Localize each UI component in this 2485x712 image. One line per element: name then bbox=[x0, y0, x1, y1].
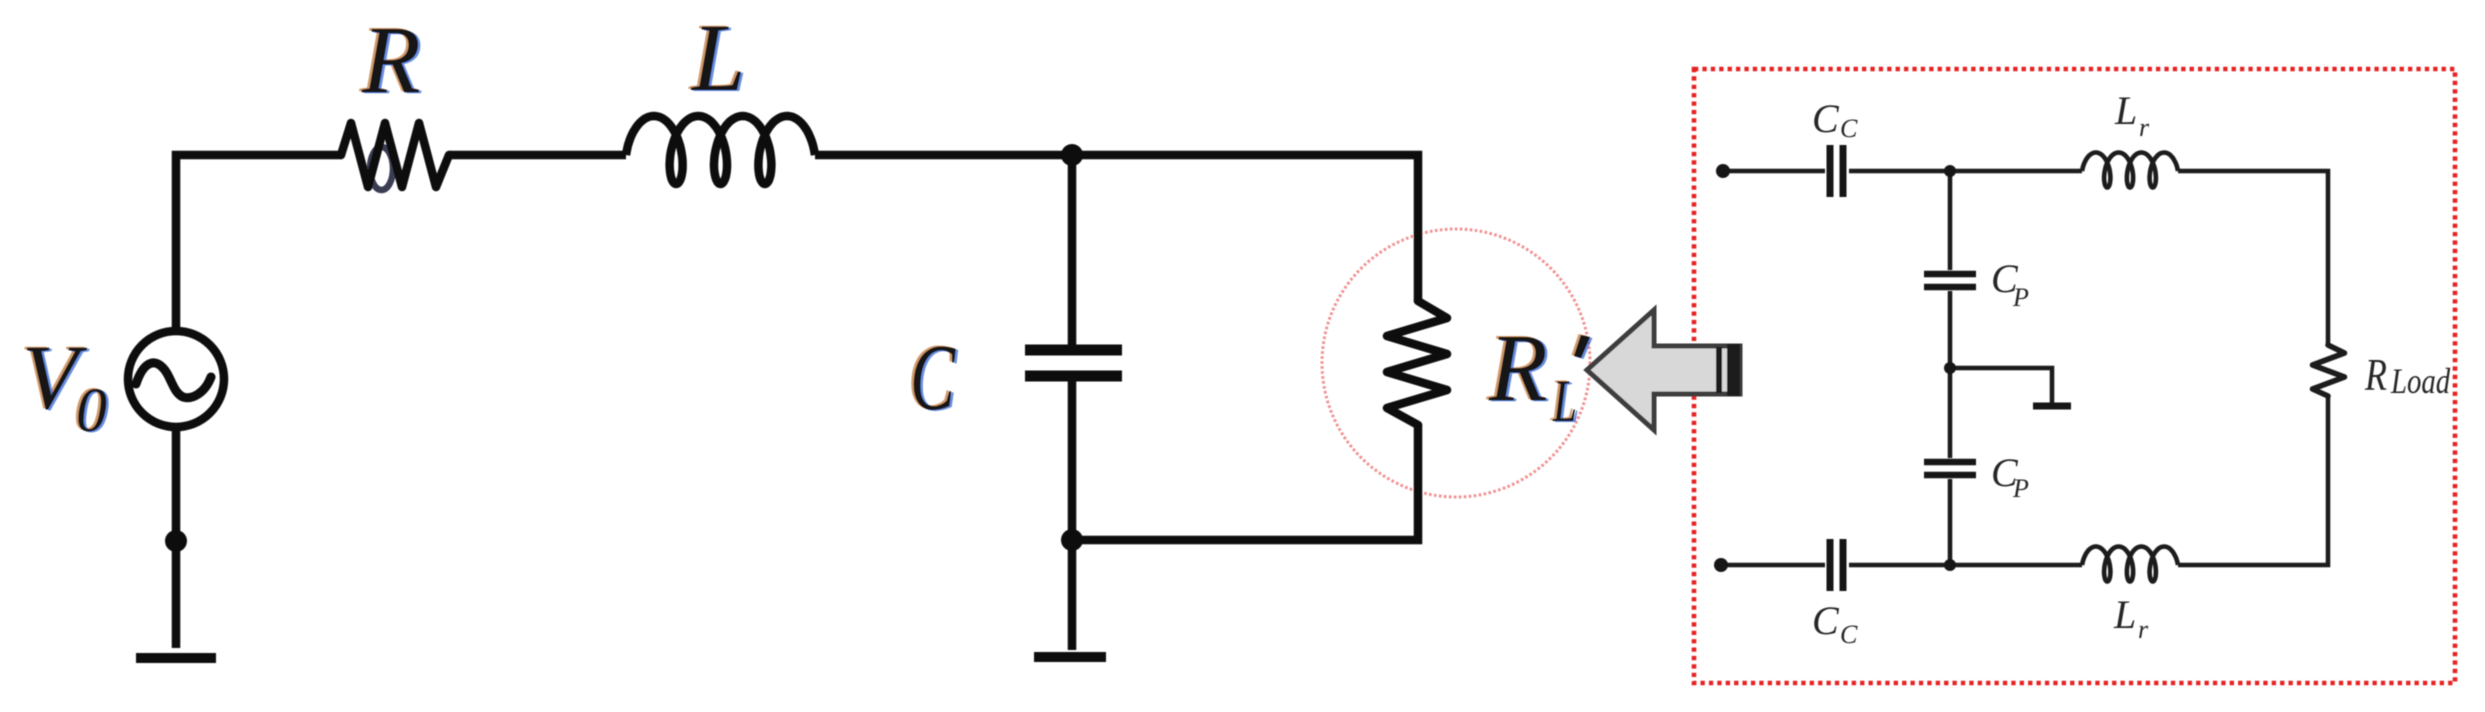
svg-text:L: L bbox=[2113, 592, 2136, 637]
svg-text:r: r bbox=[2138, 615, 2149, 644]
svg-text:Load: Load bbox=[2390, 362, 2451, 402]
svg-text:C: C bbox=[1812, 598, 1840, 643]
svg-text:r: r bbox=[2139, 113, 2150, 142]
svg-text:P: P bbox=[2012, 283, 2029, 312]
svg-text:C: C bbox=[1840, 620, 1858, 649]
svg-text:C: C bbox=[1812, 96, 1840, 141]
svg-text:P: P bbox=[2012, 474, 2029, 503]
svg-text:C: C bbox=[1840, 114, 1858, 143]
svg-text:R: R bbox=[2364, 349, 2387, 400]
svg-text:L: L bbox=[2114, 88, 2137, 133]
